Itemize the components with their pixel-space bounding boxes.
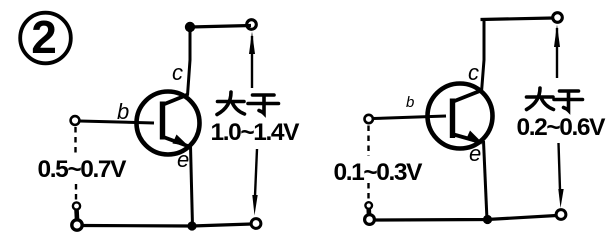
terminal: top right (left circuit) (247, 20, 257, 30)
value label 大于 (right circuit) (527, 88, 583, 111)
wire: top rail (left circuit) (190, 26, 251, 28)
transistor Q2 (NPN, right) (428, 84, 493, 149)
svg-text:b: b (117, 99, 129, 124)
measurement arrow down toward bottom rail (right circuit) (558, 143, 563, 208)
svg-text:0.1~0.3V: 0.1~0.3V (334, 159, 424, 186)
measurement arrow down toward bottom rail (left circuit) (252, 149, 257, 216)
terminal: bottom right (left circuit) (251, 219, 261, 229)
wire: collector lead up to top rail (left circuit) (188, 27, 191, 96)
wire: stub between terminals (left circuit) (74, 210, 79, 220)
wire: collector lead up to top rail (right circuit) (482, 20, 485, 93)
svg-text:e: e (469, 141, 481, 166)
measurement arrow up toward top rail (right circuit) (554, 25, 560, 79)
figure number 2 (circled) (20, 11, 71, 63)
wire: bottom rail (right circuit) (374, 216, 557, 221)
junction dot: collector / top rail (left circuit) (185, 22, 195, 32)
terminal: top right (right circuit) (553, 13, 563, 23)
svg-text:c: c (468, 60, 479, 85)
terminal: bottom left (right circuit) (365, 215, 375, 225)
svg-text:2: 2 (31, 11, 57, 63)
junction dot: emitter / bottom rail (right circuit) (483, 215, 492, 224)
transistor Q1 (NPN, left) (137, 92, 200, 155)
terminal: bottom right (right circuit) (556, 210, 566, 220)
terminal: bottom left (left circuit) (72, 220, 82, 230)
junction dot: emitter / bottom rail (left circuit) (187, 221, 196, 230)
wire: stub between terminals (right circuit) (366, 209, 371, 216)
measurement arrow up toward top rail (left circuit) (249, 32, 255, 89)
terminal: left base probe point (left circuit) (71, 116, 80, 125)
wire: base lead (left circuit) (80, 121, 155, 123)
dashed measurement line (left circuit) (74, 127, 77, 202)
wire: bottom rail (left circuit) (82, 224, 252, 226)
terminal: small probe above ground terminal (left circuit) (73, 202, 80, 209)
dashed measurement line (right circuit) (367, 126, 369, 202)
wire: emitter lead down to bottom rail (left circuit) (191, 146, 193, 226)
value label 大于 (left circuit) (217, 92, 279, 115)
svg-text:c: c (172, 60, 183, 85)
wire: base lead (right circuit) (373, 116, 446, 119)
wire: top rail (right circuit) (481, 18, 554, 20)
terminal: small probe above ground terminal (right circuit) (365, 202, 372, 209)
svg-text:0.5~0.7V: 0.5~0.7V (38, 156, 128, 183)
svg-text:b: b (406, 94, 414, 111)
svg-text:1.0~1.4V: 1.0~1.4V (211, 119, 301, 146)
terminal: left base probe point (right circuit) (365, 115, 373, 123)
svg-text:0.2~0.6V: 0.2~0.6V (517, 114, 607, 141)
svg-text:e: e (177, 147, 189, 172)
wire: emitter lead down to bottom rail (right circuit) (484, 141, 488, 220)
